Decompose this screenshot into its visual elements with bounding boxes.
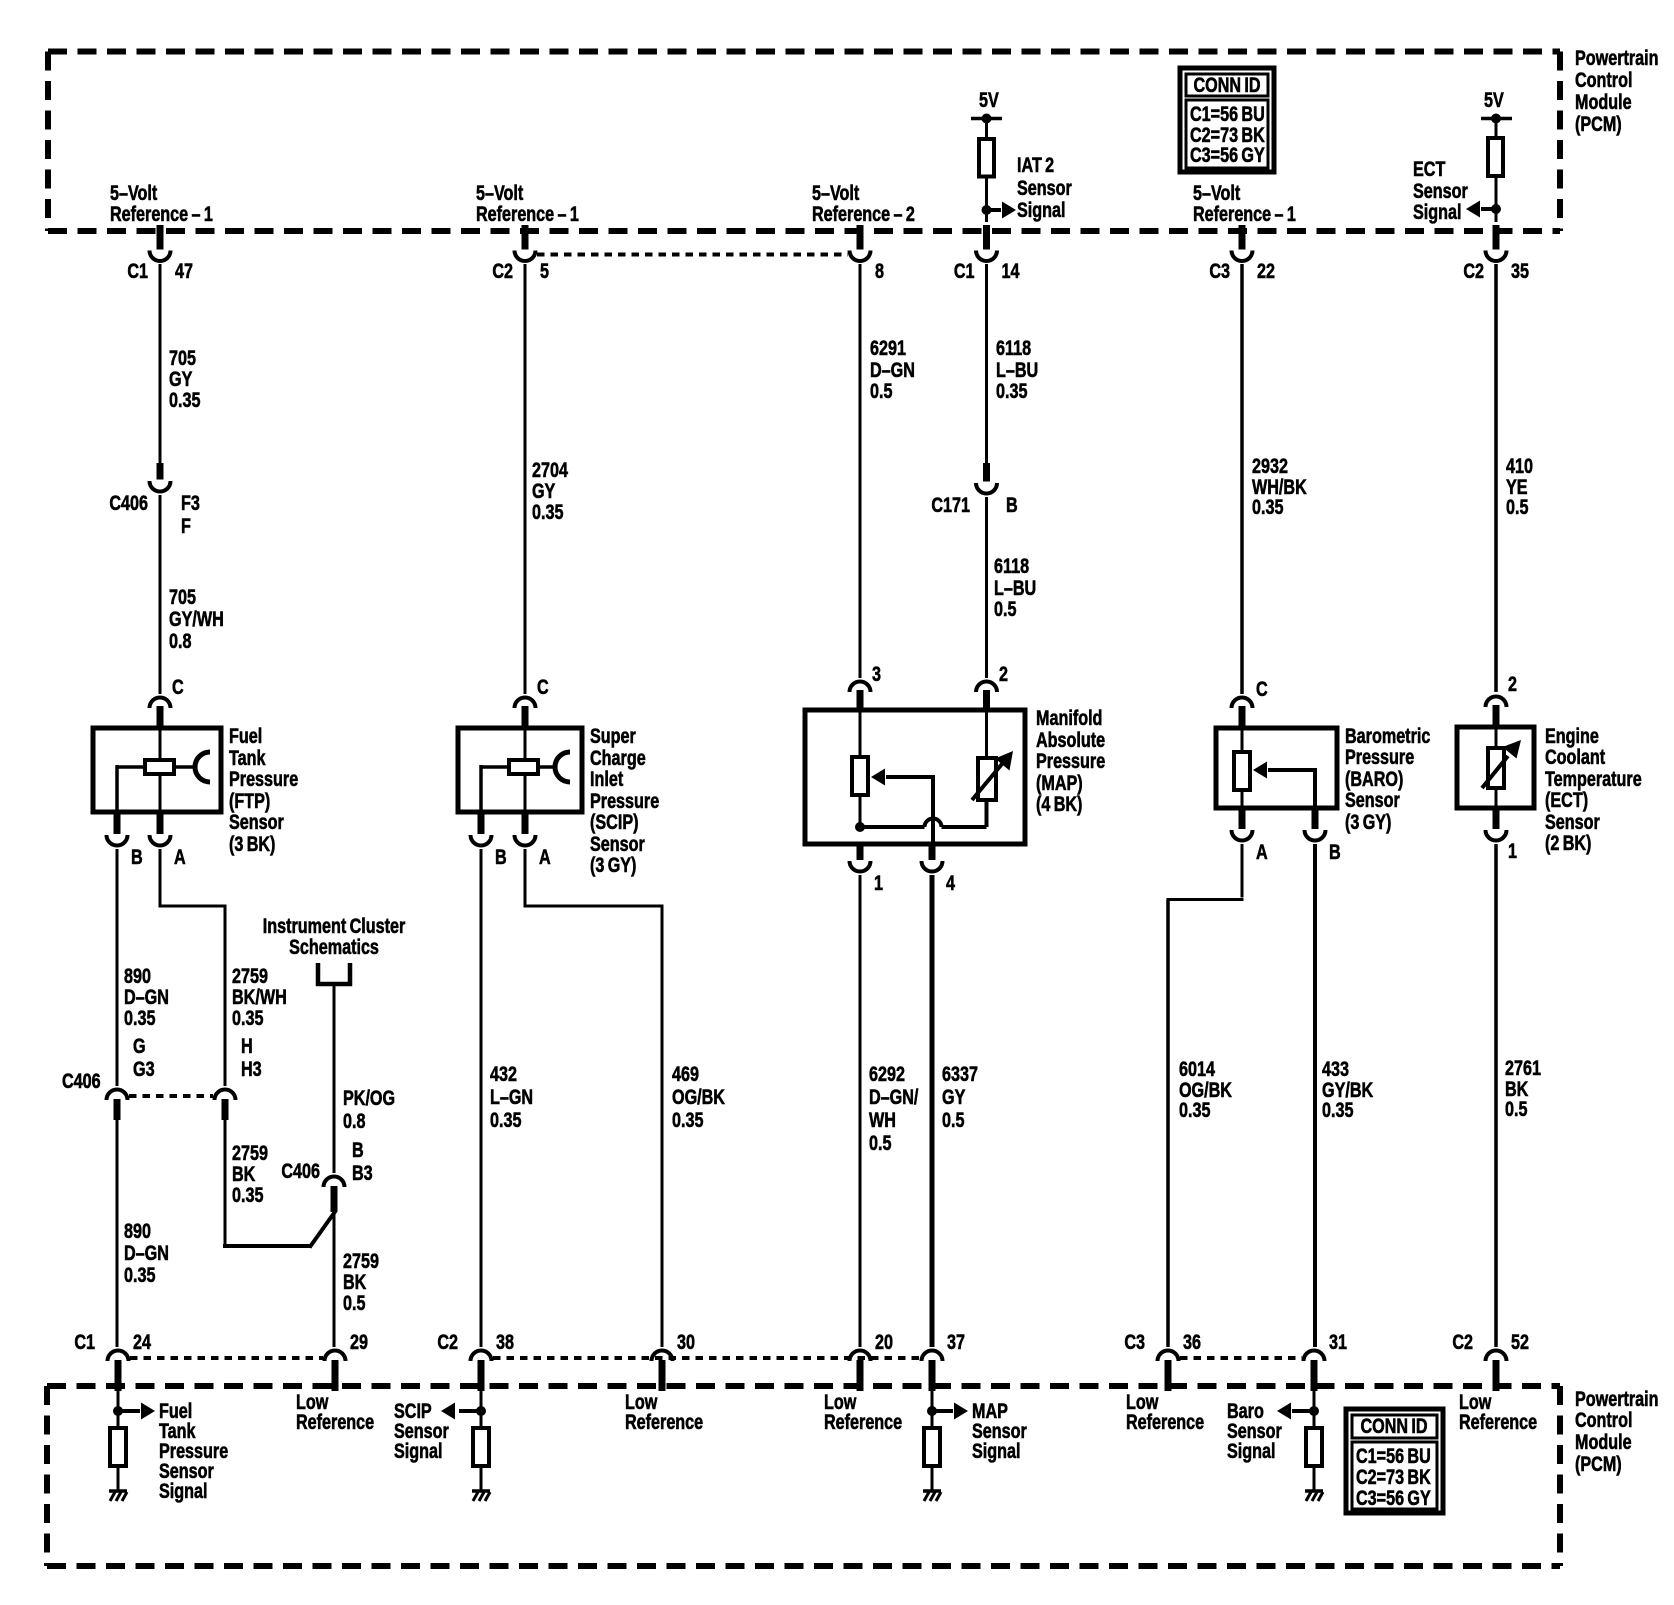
connector PCM C1 pin 14 [983, 225, 990, 250]
svg-text:410: 410 [1506, 454, 1533, 478]
connector PCM pin 20 [850, 1351, 871, 1362]
svg-text:0.5: 0.5 [994, 597, 1016, 621]
svg-text:B: B [131, 845, 143, 869]
svg-text:890: 890 [124, 1219, 151, 1243]
svg-text:IAT 2: IAT 2 [1017, 153, 1054, 177]
svg-text:D–GN/: D–GN/ [869, 1085, 919, 1109]
wire 705 GY/WH (C406 to FTP C) [159, 495, 162, 694]
svg-text:Pressure: Pressure [1345, 745, 1414, 769]
svg-text:B3: B3 [352, 1161, 373, 1185]
svg-text:Sensor: Sensor [1017, 176, 1072, 200]
svg-text:C: C [172, 675, 184, 699]
connector MAP pin 3 [850, 682, 871, 693]
resistor MAP variable element [985, 800, 989, 827]
svg-text:Reference – 1: Reference – 1 [476, 202, 579, 226]
svg-text:Reference: Reference [1459, 1410, 1537, 1434]
svg-text:(FTP): (FTP) [229, 789, 270, 813]
svg-text:Control: Control [1575, 68, 1632, 92]
svg-text:H3: H3 [241, 1057, 262, 1081]
svg-text:C2: C2 [492, 259, 513, 283]
svg-text:(3 BK): (3 BK) [229, 832, 275, 856]
svg-text:C3=56 GY: C3=56 GY [1356, 1486, 1431, 1510]
svg-text:L–BU: L–BU [994, 576, 1036, 600]
svg-text:14: 14 [1002, 259, 1020, 283]
connector BARO pin A [1239, 808, 1246, 829]
svg-text:6291: 6291 [870, 336, 906, 360]
SCIP pressure port symbol [538, 765, 555, 769]
svg-text:52: 52 [1511, 1330, 1529, 1354]
wire ECT pull-up to pin 35 [1495, 176, 1498, 222]
svg-text:Reference: Reference [625, 1410, 703, 1434]
wire MAP termination to ground [931, 1466, 934, 1491]
sensor BARO box outline [1216, 728, 1337, 808]
svg-text:Signal: Signal [1017, 198, 1066, 222]
svg-text:C171: C171 [931, 493, 970, 517]
svg-text:L–BU: L–BU [996, 358, 1038, 382]
wire 2759 BK/WH (FTP A jog to C406 H) [159, 849, 162, 906]
svg-text:C: C [537, 675, 549, 699]
arrow ECT thermistor diagonal [1482, 756, 1508, 788]
svg-text:Reference: Reference [1126, 1410, 1204, 1434]
sensor FTP box outline [93, 728, 221, 812]
CONN ID table (top) [1180, 68, 1274, 172]
resistor FTP sense element [145, 760, 174, 774]
resistor BARO potentiometer [1241, 728, 1244, 752]
svg-text:(3 GY): (3 GY) [1345, 810, 1391, 834]
svg-text:0.8: 0.8 [343, 1109, 365, 1133]
node IAT 2 signal junction + arrow [982, 205, 992, 215]
svg-text:0.35: 0.35 [232, 1183, 263, 1207]
connector PCM pin 31 [1304, 1351, 1325, 1362]
svg-text:8: 8 [875, 259, 884, 283]
resistor MAP potentiometer [859, 710, 862, 757]
svg-text:20: 20 [875, 1330, 893, 1354]
connector C406 pin G/G3 [107, 1090, 128, 1101]
svg-text:A: A [539, 845, 551, 869]
connector SCIP pin A [522, 812, 529, 834]
connector C171 pin B [983, 463, 990, 482]
svg-text:B: B [495, 845, 507, 869]
svg-text:Powertrain: Powertrain [1575, 46, 1659, 70]
connector C406 pin H/H3 [215, 1090, 236, 1101]
svg-text:D–GN: D–GN [124, 1241, 169, 1265]
svg-text:2704: 2704 [532, 458, 568, 482]
wire BARO wiper arrow into potentiometer [1253, 762, 1267, 779]
connector BARO pin C [1232, 698, 1253, 709]
svg-text:0.35: 0.35 [672, 1108, 703, 1132]
svg-text:GY: GY [169, 367, 193, 391]
svg-text:C3=56 GY: C3=56 GY [1190, 143, 1265, 167]
svg-text:0.35: 0.35 [1322, 1098, 1353, 1122]
svg-text:Sensor: Sensor [1545, 810, 1600, 834]
svg-text:Reference – 1: Reference – 1 [110, 202, 213, 226]
svg-text:Pressure: Pressure [229, 767, 298, 791]
connector PCM C3 pin 36 [1158, 1351, 1179, 1362]
connector PCM pin 37 [922, 1351, 943, 1362]
svg-text:432: 432 [490, 1062, 517, 1086]
wire 705 GY (pin47 to C406) [159, 264, 162, 463]
wire PK/OG from instrument cluster [333, 984, 336, 1173]
ground chassis (FTP) [109, 1489, 127, 1493]
svg-text:Pressure: Pressure [1036, 749, 1105, 773]
connector MAP pin 1 [857, 844, 864, 860]
svg-text:BK/WH: BK/WH [232, 985, 287, 1009]
node MAP signal junction + arrow [927, 1406, 937, 1416]
svg-text:(SCIP): (SCIP) [590, 810, 639, 834]
svg-text:B: B [352, 1138, 364, 1162]
svg-text:Inlet: Inlet [590, 767, 624, 791]
svg-text:CONN ID: CONN ID [1360, 1414, 1427, 1438]
svg-text:0.5: 0.5 [870, 379, 892, 403]
svg-text:29: 29 [350, 1330, 368, 1354]
svg-text:Fuel: Fuel [229, 724, 262, 748]
connector BARO pin B [1312, 808, 1319, 829]
svg-text:5V: 5V [1484, 88, 1504, 112]
svg-text:C1: C1 [127, 259, 148, 283]
node MAP wiper junction [855, 822, 865, 832]
svg-text:2759: 2759 [232, 1141, 268, 1165]
ground chassis (MAP) [923, 1489, 941, 1493]
svg-text:Sensor: Sensor [1345, 788, 1400, 812]
resistor IAT 2 pull-up [979, 139, 994, 177]
svg-text:C406: C406 [62, 1069, 101, 1093]
svg-text:H: H [241, 1034, 253, 1058]
wire FTP internal vertical [159, 728, 162, 812]
svg-text:Super: Super [590, 724, 636, 748]
connector PCM C2 pin 38 [471, 1351, 492, 1362]
svg-text:(2 BK): (2 BK) [1545, 831, 1591, 855]
svg-text:C2: C2 [1463, 259, 1484, 283]
svg-text:C406: C406 [281, 1159, 320, 1183]
wire 6291 D-GN (pin8 to MAP 3) [859, 264, 862, 678]
svg-text:ECT: ECT [1413, 157, 1446, 181]
svg-text:CONN ID: CONN ID [1193, 73, 1260, 97]
svg-text:Tank: Tank [229, 746, 266, 770]
resistor MAP signal termination [924, 1428, 940, 1466]
svg-text:433: 433 [1322, 1057, 1349, 1081]
connector SCIP pin B [478, 812, 485, 834]
svg-text:C1: C1 [74, 1330, 95, 1354]
wire 6118 L-BU (pin14 to C171) [985, 264, 988, 463]
connector PCM C2 pin 35 [1493, 225, 1500, 250]
CONN ID table (bottom) [1346, 1409, 1443, 1513]
svg-text:(PCM): (PCM) [1575, 112, 1622, 136]
connector PCM C1 pin 24 [108, 1351, 129, 1362]
wire pin37 into PCM [931, 1391, 934, 1428]
svg-text:2: 2 [999, 662, 1008, 686]
connector PCM C1 pin 47 [157, 225, 164, 250]
connector ECT pin 1 [1493, 808, 1500, 829]
svg-text:Powertrain: Powertrain [1575, 1387, 1659, 1411]
wire MAP wiper arrow into potentiometer [886, 775, 935, 779]
svg-text:6337: 6337 [942, 1062, 978, 1086]
svg-text:Signal: Signal [1413, 200, 1462, 224]
svg-text:0.35: 0.35 [232, 1006, 263, 1030]
wire MAP internal bottom with hop [860, 825, 925, 829]
node Baro signal junction + arrow [1309, 1406, 1319, 1416]
svg-text:Pressure: Pressure [590, 789, 659, 813]
svg-text:6118: 6118 [996, 336, 1031, 360]
svg-text:0.35: 0.35 [169, 388, 200, 412]
wire 6118 L-BU (C171 to MAP 2) [985, 497, 988, 678]
svg-text:3: 3 [872, 662, 881, 686]
svg-text:C: C [1256, 677, 1268, 701]
wire SCIP internal vertical [524, 728, 527, 812]
svg-text:B: B [1329, 840, 1341, 864]
wire 410 YE (pin35 to ECT 2) [1494, 264, 1498, 692]
dashed connector tie C406 G to H [129, 1094, 213, 1098]
svg-text:Instrument Cluster: Instrument Cluster [263, 914, 406, 938]
connector C406 pin F3/F [157, 463, 164, 480]
svg-text:Coolant: Coolant [1545, 745, 1606, 769]
connector FTP pin B [114, 812, 121, 834]
connector MAP pin 4 [929, 844, 936, 860]
svg-text:Sensor: Sensor [1413, 179, 1468, 203]
connector PCM C2 pin 52 [1486, 1351, 1507, 1362]
resistor SCIP sense element [509, 760, 538, 774]
svg-text:Signal: Signal [1227, 1439, 1276, 1463]
svg-text:0.35: 0.35 [1179, 1098, 1210, 1122]
svg-text:0.35: 0.35 [124, 1263, 155, 1287]
svg-text:Signal: Signal [159, 1479, 208, 1503]
svg-text:6118: 6118 [994, 554, 1029, 578]
svg-text:0.8: 0.8 [169, 629, 191, 653]
svg-text:G3: G3 [133, 1057, 155, 1081]
connector PCM pin 29 [325, 1351, 346, 1362]
svg-text:Schematics: Schematics [289, 935, 379, 959]
svg-text:2: 2 [1508, 672, 1517, 696]
connector PCM pin 8 [857, 225, 864, 250]
svg-text:0.35: 0.35 [532, 500, 563, 524]
FTP pressure port symbol [174, 765, 195, 769]
svg-text:37: 37 [947, 1330, 965, 1354]
wire 2759 BK (splice to pin 29) [333, 1210, 336, 1347]
wire 2759 BK (C406 H to splice) [224, 1120, 227, 1244]
svg-text:2759: 2759 [232, 964, 268, 988]
wire 6014 OG/BK (BARO A jog to pin 36) [1241, 844, 1244, 898]
wire 2761 BK (ECT 1 to pin 52) [1494, 844, 1498, 1347]
svg-text:0.35: 0.35 [124, 1006, 155, 1030]
svg-text:Module: Module [1575, 1430, 1632, 1454]
dotted connector tie pin24 to pin29 [130, 1356, 323, 1360]
resistor SCIP signal termination [473, 1428, 489, 1466]
wire 890 D-GN (C406 G to pin 24) [116, 1120, 119, 1347]
svg-text:36: 36 [1183, 1330, 1201, 1354]
wire 6292 D-GN/WH (MAP 1 to pin 20) [859, 875, 862, 1347]
svg-text:OG/BK: OG/BK [672, 1085, 725, 1109]
svg-text:(BARO): (BARO) [1345, 767, 1403, 791]
PCM top dashed enclosure box [48, 49, 1560, 55]
ground chassis (Baro) [1305, 1489, 1323, 1493]
svg-text:PK/OG: PK/OG [343, 1086, 395, 1110]
svg-text:2761: 2761 [1505, 1056, 1541, 1080]
svg-text:Signal: Signal [394, 1439, 443, 1463]
svg-text:Engine: Engine [1545, 724, 1599, 748]
svg-text:6014: 6014 [1179, 1057, 1215, 1081]
wire 2704 GY (pin5 to SCIP C) [524, 264, 527, 694]
svg-text:C406: C406 [109, 491, 148, 515]
wire Baro termination to ground [1313, 1466, 1316, 1491]
svg-text:GY: GY [532, 479, 556, 503]
svg-text:(PCM): (PCM) [1575, 1452, 1622, 1476]
svg-text:5–Volt: 5–Volt [812, 181, 860, 205]
connector PCM C2 pin 5 [522, 225, 529, 250]
svg-text:890: 890 [124, 964, 151, 988]
svg-text:0.5: 0.5 [1506, 495, 1528, 519]
svg-text:C1=56 BU: C1=56 BU [1190, 102, 1265, 126]
svg-text:D–GN: D–GN [124, 985, 169, 1009]
connector C406 pin B/B3 [324, 1177, 345, 1188]
svg-text:C3: C3 [1209, 259, 1230, 283]
sensor MAP box outline [805, 710, 1025, 844]
wire pin38 into PCM [480, 1391, 483, 1428]
svg-text:0.5: 0.5 [942, 1108, 964, 1132]
svg-text:Reference: Reference [296, 1410, 374, 1434]
svg-text:C2=73 BK: C2=73 BK [1356, 1465, 1431, 1489]
wire FTP termination to ground [117, 1466, 120, 1491]
wire 2932 WH/BK (pin22 to BARO C) [1240, 264, 1244, 694]
svg-text:Absolute: Absolute [1036, 728, 1105, 752]
svg-text:(ECT): (ECT) [1545, 788, 1588, 812]
svg-text:1: 1 [874, 871, 883, 895]
svg-text:D–GN: D–GN [870, 358, 915, 382]
svg-text:Module: Module [1575, 90, 1632, 114]
wire IAT pull-up to pin 14 [985, 177, 988, 223]
svg-text:L–GN: L–GN [490, 1085, 533, 1109]
connector PCM C3 pin 22 [1239, 225, 1246, 250]
wire 433 GY/BK (BARO B to pin 31) [1313, 844, 1317, 1347]
svg-text:2932: 2932 [1252, 454, 1288, 478]
svg-text:705: 705 [169, 346, 196, 370]
svg-text:38: 38 [496, 1330, 514, 1354]
arrow MAP variable element diagonal [972, 764, 1002, 800]
svg-text:C2: C2 [437, 1330, 458, 1354]
node FTP signal junction + arrow [113, 1406, 123, 1416]
svg-text:G: G [133, 1034, 146, 1058]
resistor FTP signal termination [110, 1428, 126, 1466]
resistor ECT thermistor [1495, 727, 1498, 748]
svg-text:Reference – 2: Reference – 2 [812, 202, 915, 226]
connector PCM pin 30 [652, 1351, 673, 1362]
svg-text:5–Volt: 5–Volt [1193, 181, 1241, 205]
svg-text:5–Volt: 5–Volt [110, 181, 158, 205]
dotted connector tie C2 pin5 to pin8 [537, 253, 848, 257]
svg-text:0.5: 0.5 [343, 1291, 365, 1315]
connector SCIP pin C [515, 698, 536, 709]
wire SCIP termination to ground [480, 1466, 483, 1491]
node ECT signal junction + arrow [1491, 204, 1501, 214]
svg-text:C2: C2 [1452, 1330, 1473, 1354]
svg-text:31: 31 [1329, 1330, 1347, 1354]
dotted connector tie pin36 to pin31 [1180, 1356, 1302, 1360]
svg-text:A: A [1256, 840, 1268, 864]
svg-text:A: A [174, 845, 186, 869]
connector MAP pin 2 [976, 682, 997, 693]
svg-text:Sensor: Sensor [229, 810, 284, 834]
node SCIP signal junction + arrow [476, 1406, 486, 1416]
svg-text:GY: GY [942, 1085, 966, 1109]
svg-text:(4 BK): (4 BK) [1036, 792, 1082, 816]
resistor ECT pull-up [1488, 138, 1503, 176]
svg-text:GY/WH: GY/WH [169, 607, 224, 631]
svg-text:5V: 5V [979, 88, 999, 112]
ground chassis (SCIP) [472, 1489, 490, 1493]
wire pin31 into PCM [1313, 1391, 1316, 1428]
svg-text:705: 705 [169, 585, 196, 609]
svg-text:Barometric: Barometric [1345, 724, 1430, 748]
wire SCIP internal to pin B [481, 765, 509, 769]
svg-text:B: B [1006, 493, 1018, 517]
svg-text:Sensor: Sensor [590, 832, 645, 856]
svg-text:22: 22 [1257, 259, 1275, 283]
svg-text:BK: BK [232, 1162, 256, 1186]
svg-text:4: 4 [946, 871, 955, 895]
connector FTP pin A [157, 812, 164, 834]
svg-text:(3 GY): (3 GY) [590, 853, 636, 877]
svg-text:0.35: 0.35 [1252, 495, 1283, 519]
wire 432 L-GN (SCIP B to pin 38) [480, 849, 483, 1347]
svg-text:0.35: 0.35 [490, 1108, 521, 1132]
wire FTP internal to pin B [117, 765, 145, 769]
svg-text:0.35: 0.35 [996, 379, 1027, 403]
svg-text:30: 30 [677, 1330, 695, 1354]
PCM bottom dashed enclosure box [47, 1383, 1560, 1389]
svg-text:Manifold: Manifold [1036, 706, 1102, 730]
svg-text:0.5: 0.5 [869, 1131, 891, 1155]
svg-text:F: F [181, 514, 191, 538]
svg-text:5–Volt: 5–Volt [476, 181, 524, 205]
svg-text:2759: 2759 [343, 1249, 379, 1273]
svg-text:0.5: 0.5 [1505, 1097, 1527, 1121]
svg-text:35: 35 [1511, 259, 1529, 283]
svg-text:Signal: Signal [972, 1439, 1021, 1463]
svg-text:24: 24 [133, 1330, 151, 1354]
svg-text:WH: WH [869, 1108, 896, 1132]
dotted connector tie pin38 to pin37 [493, 1356, 920, 1360]
svg-text:C1: C1 [954, 259, 975, 283]
svg-text:Reference: Reference [824, 1410, 902, 1434]
resistor Baro signal termination [1306, 1428, 1322, 1466]
svg-text:47: 47 [175, 259, 193, 283]
svg-text:5: 5 [540, 259, 549, 283]
wire 890 D-GN (FTP B down to C406 G) [116, 849, 119, 1086]
wire 6337 GY (MAP 4 to pin 37) [930, 875, 935, 1347]
svg-text:Charge: Charge [590, 746, 646, 770]
svg-text:Reference – 1: Reference – 1 [1193, 202, 1296, 226]
svg-text:C1=56 BU: C1=56 BU [1356, 1444, 1431, 1468]
svg-text:C3: C3 [1124, 1330, 1145, 1354]
connector FTP pin C [150, 698, 171, 709]
connector ECT pin 2 [1486, 697, 1507, 708]
sensor SCIP box outline [458, 728, 582, 812]
svg-text:469: 469 [672, 1062, 699, 1086]
svg-text:Temperature: Temperature [1545, 767, 1642, 791]
svg-text:BK: BK [343, 1270, 367, 1294]
sensor ECT box outline [1457, 727, 1534, 808]
svg-text:F3: F3 [181, 491, 200, 515]
wire pin24 into PCM [117, 1391, 120, 1428]
svg-text:6292: 6292 [869, 1062, 905, 1086]
wire 469 OG/BK (SCIP A jog to pin 30) [524, 849, 527, 906]
svg-text:Control: Control [1575, 1408, 1632, 1432]
svg-text:(MAP): (MAP) [1036, 771, 1083, 795]
svg-text:1: 1 [1508, 839, 1517, 863]
